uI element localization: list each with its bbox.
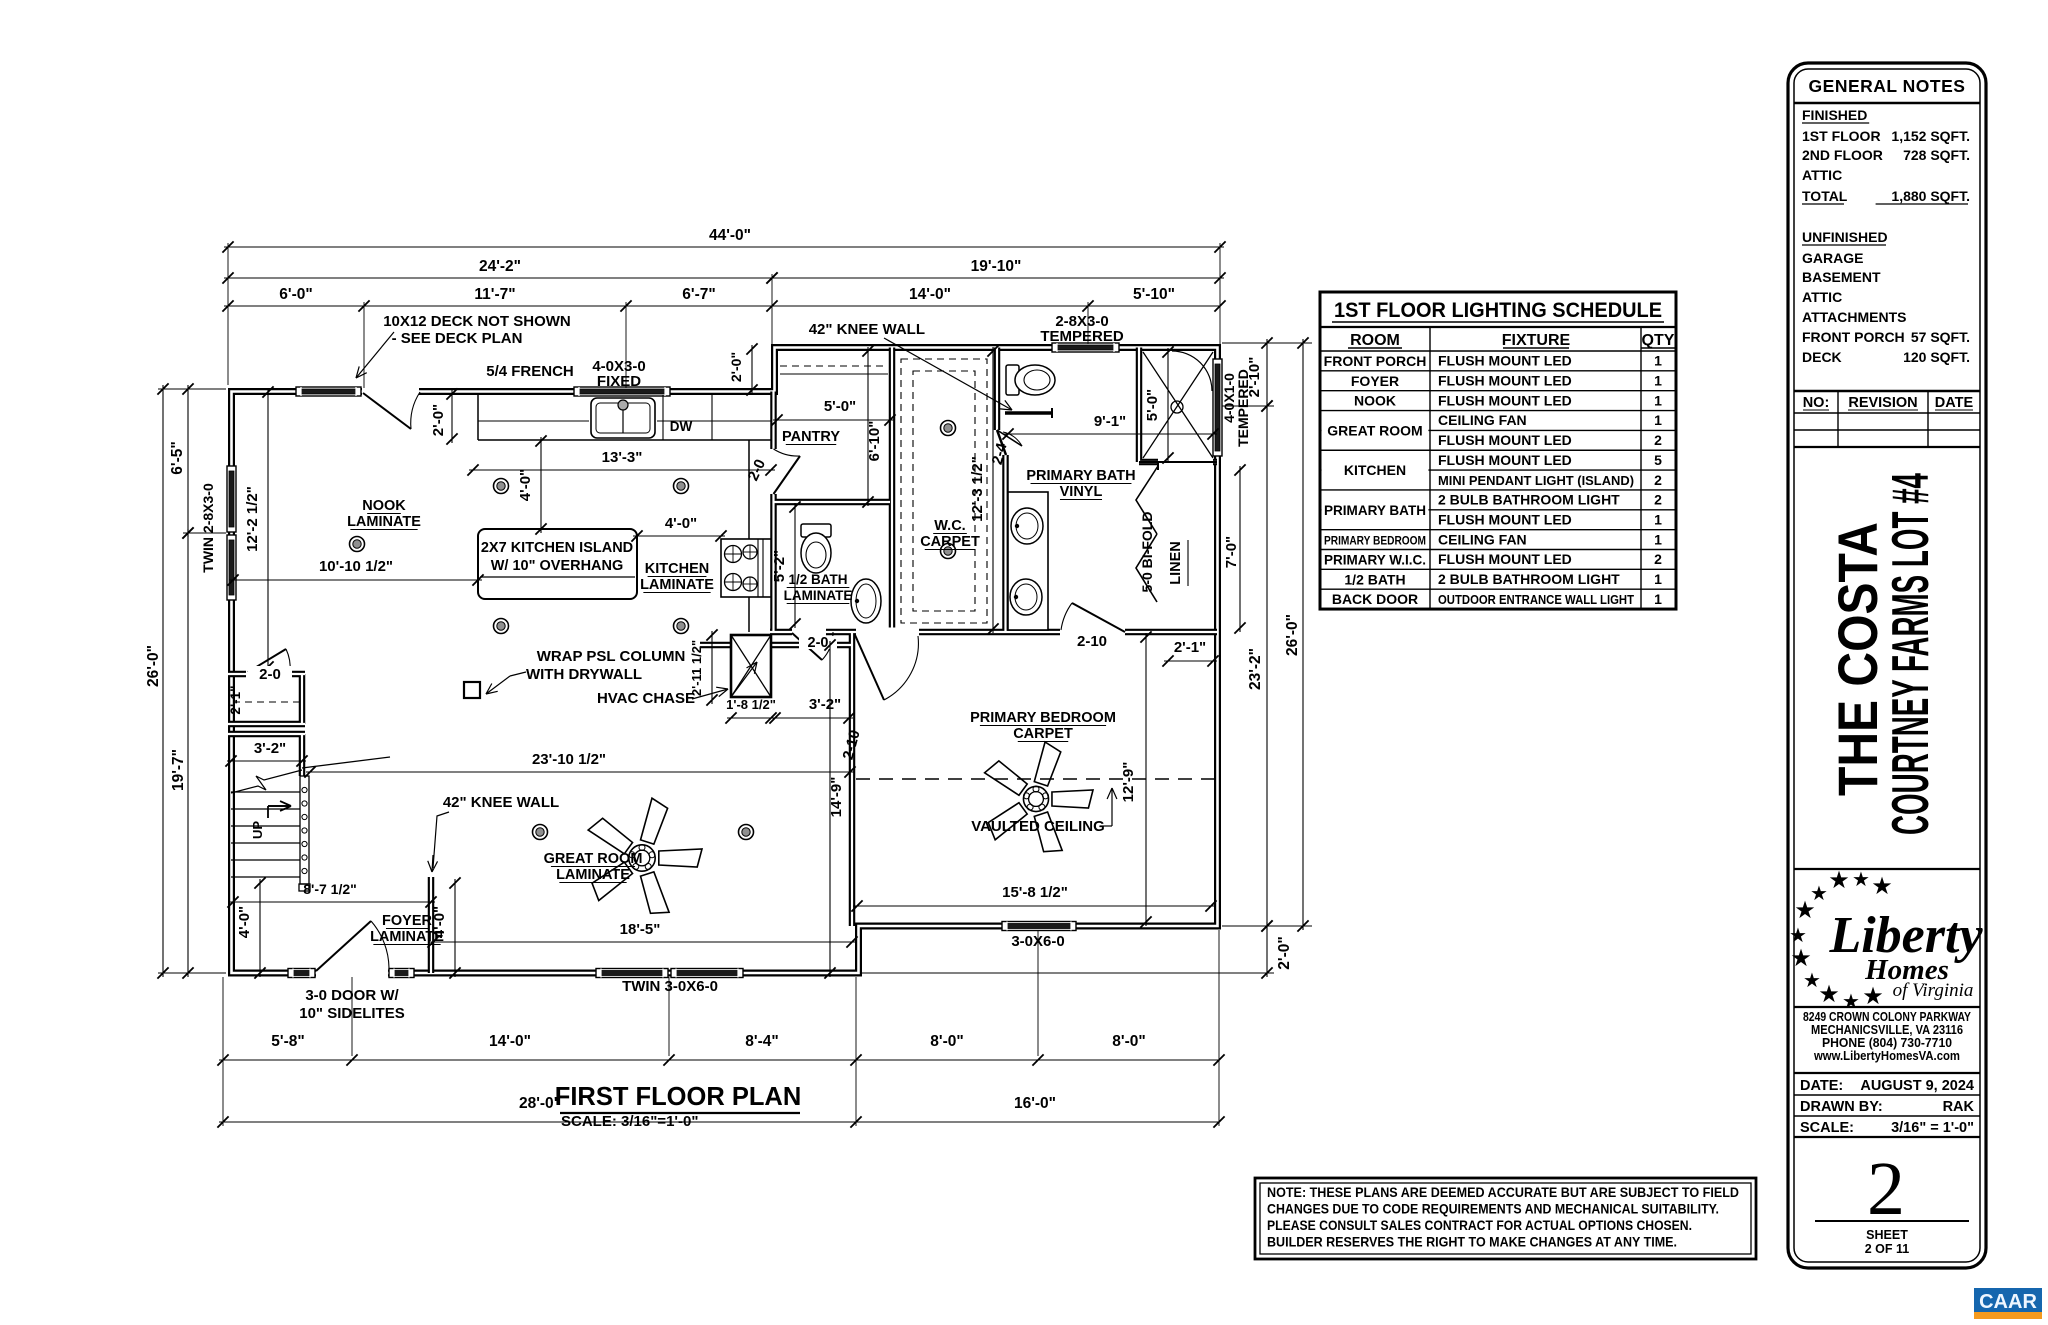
svg-text:PANTRY: PANTRY [782,429,840,445]
svg-text:www.LibertyHomesVA.com: www.LibertyHomesVA.com [1813,1049,1960,1063]
svg-text:of Virginia: of Virginia [1893,980,1974,1001]
svg-text:★: ★ [1818,981,1840,1008]
svg-text:14'-9": 14'-9" [828,777,845,818]
svg-text:5'-10": 5'-10" [1133,286,1175,303]
svg-text:2 OF 11: 2 OF 11 [1865,1242,1910,1256]
svg-text:GARAGE: GARAGE [1802,250,1863,266]
svg-text:VAULTED CEILING: VAULTED CEILING [971,818,1105,835]
svg-text:5: 5 [1654,452,1662,468]
svg-text:2'-0": 2'-0" [728,352,744,382]
svg-text:19'-10": 19'-10" [971,258,1022,275]
svg-text:18'-5": 18'-5" [620,921,661,938]
svg-text:SCALE: 3/16"=1'-0": SCALE: 3/16"=1'-0" [561,1113,698,1130]
svg-text:FIRST FLOOR PLAN: FIRST FLOOR PLAN [555,1083,801,1111]
svg-text:MINI PENDANT LIGHT (ISLAND): MINI PENDANT LIGHT (ISLAND) [1438,473,1634,488]
svg-text:1/2 BATH: 1/2 BATH [788,572,847,587]
svg-text:14'-0": 14'-0" [489,1033,531,1050]
svg-text:1: 1 [1654,591,1662,607]
svg-text:23'-2": 23'-2" [1247,648,1264,690]
svg-text:1: 1 [1654,571,1662,587]
svg-text:2'-1": 2'-1" [228,685,243,714]
svg-text:26'-0": 26'-0" [1284,614,1301,656]
svg-text:FRONT PORCH: FRONT PORCH [1324,353,1427,369]
svg-text:57 SQFT.: 57 SQFT. [1911,329,1970,345]
svg-text:6'-5": 6'-5" [169,441,186,474]
svg-text:2'-11 1/2": 2'-11 1/2" [689,640,704,696]
svg-text:NOOK: NOOK [1354,393,1396,409]
svg-text:5'-2": 5'-2" [771,550,788,582]
svg-text:8'-0": 8'-0" [930,1033,963,1050]
svg-text:8'-4": 8'-4" [745,1033,778,1050]
svg-text:1ST FLOOR LIGHTING SCHEDULE: 1ST FLOOR LIGHTING SCHEDULE [1334,299,1662,322]
svg-text:12'-2 1/2": 12'-2 1/2" [244,486,261,552]
svg-text:5'-0": 5'-0" [1144,389,1161,421]
svg-text:ATTIC: ATTIC [1802,167,1842,183]
svg-text:10" SIDELITES: 10" SIDELITES [299,1005,404,1022]
svg-text:DATE: DATE [1935,395,1974,411]
svg-text:NOTE: THESE PLANS ARE DEEMED A: NOTE: THESE PLANS ARE DEEMED ACCURATE BU… [1267,1184,1739,1200]
svg-text:PHONE (804) 730-7710: PHONE (804) 730-7710 [1822,1036,1952,1050]
svg-text:4'-0": 4'-0" [236,906,253,938]
svg-text:1/2 BATH: 1/2 BATH [1344,571,1405,587]
svg-text:FOYER: FOYER [1351,373,1399,389]
svg-text:SHEET: SHEET [1866,1228,1908,1242]
svg-text:FLUSH MOUNT LED: FLUSH MOUNT LED [1438,353,1572,369]
svg-text:★: ★ [1790,945,1812,972]
svg-text:FIXTURE: FIXTURE [1502,332,1571,349]
svg-text:AUGUST 9, 2024: AUGUST 9, 2024 [1860,1078,1974,1094]
svg-text:2: 2 [1654,472,1662,488]
svg-text:3-0 DOOR W/: 3-0 DOOR W/ [305,987,399,1004]
svg-text:2-0: 2-0 [259,666,281,683]
svg-text:7'-0": 7'-0" [1223,536,1240,568]
svg-text:★: ★ [1789,925,1807,947]
svg-text:NOOK: NOOK [362,498,406,514]
svg-text:FOYER: FOYER [382,913,432,929]
svg-text:6'-10": 6'-10" [866,421,883,462]
svg-text:PRIMARY W.I.C.: PRIMARY W.I.C. [1324,551,1426,567]
svg-text:UP: UP [250,821,265,839]
svg-text:2 BULB BATHROOM LIGHT: 2 BULB BATHROOM LIGHT [1438,492,1620,508]
svg-text:KITCHEN: KITCHEN [1344,462,1406,478]
svg-text:3'-2": 3'-2" [254,740,286,757]
svg-text:BACK DOOR: BACK DOOR [1332,591,1418,607]
svg-text:1,152 SQFT.: 1,152 SQFT. [1891,128,1970,144]
svg-text:LAMINATE: LAMINATE [640,577,714,593]
svg-text:2: 2 [1867,1147,1905,1231]
svg-text:DRAWN BY:: DRAWN BY: [1800,1099,1883,1115]
svg-text:2 BULB BATHROOM LIGHT: 2 BULB BATHROOM LIGHT [1438,571,1620,587]
svg-text:OUTDOOR ENTRANCE WALL LIGHT: OUTDOOR ENTRANCE WALL LIGHT [1438,592,1634,607]
svg-text:4'-0": 4'-0" [517,469,534,501]
svg-text:6'-7": 6'-7" [682,286,715,303]
svg-text:★: ★ [1828,867,1850,894]
svg-text:4'-0": 4'-0" [665,515,697,532]
svg-text:42" KNEE WALL: 42" KNEE WALL [809,321,925,338]
svg-text:PRIMARY BEDROOM: PRIMARY BEDROOM [1324,534,1426,548]
svg-text:120 SQFT.: 120 SQFT. [1903,349,1970,365]
svg-text:2'-1": 2'-1" [1174,639,1206,656]
svg-text:ATTIC: ATTIC [1802,289,1842,305]
svg-text:1ST FLOOR: 1ST FLOOR [1802,128,1881,144]
svg-text:VINYL: VINYL [1060,484,1103,500]
svg-text:FLUSH MOUNT LED: FLUSH MOUNT LED [1438,452,1572,468]
svg-text:ROOM: ROOM [1350,332,1400,349]
svg-text:8249 CROWN COLONY PARKWAY: 8249 CROWN COLONY PARKWAY [1803,1010,1972,1024]
svg-text:2: 2 [1654,492,1662,508]
svg-text:★: ★ [1794,897,1816,924]
svg-text:1'-8 1/2": 1'-8 1/2" [726,697,776,712]
svg-text:5'-0": 5'-0" [824,398,856,415]
svg-text:2X7 KITCHEN ISLAND: 2X7 KITCHEN ISLAND [481,540,633,556]
svg-text:BUILDER RESERVES THE RIGHT TO: BUILDER RESERVES THE RIGHT TO MAKE CHANG… [1267,1234,1677,1250]
svg-text:LAMINATE: LAMINATE [784,588,853,603]
svg-text:2: 2 [1654,551,1662,567]
svg-text:19'-7": 19'-7" [170,749,187,791]
svg-text:FLUSH MOUNT LED: FLUSH MOUNT LED [1438,392,1572,408]
svg-text:9'-1": 9'-1" [1094,413,1126,430]
svg-text:GREAT ROOM: GREAT ROOM [1327,422,1422,438]
svg-text:3-0X6-0: 3-0X6-0 [1011,933,1064,950]
svg-text:- SEE DECK PLAN: - SEE DECK PLAN [392,330,523,347]
svg-text:TEMPERED: TEMPERED [1040,328,1124,345]
svg-text:WRAP PSL COLUMN: WRAP PSL COLUMN [537,648,686,665]
svg-text:MECHANICSVILLE, VA 23116: MECHANICSVILLE, VA 23116 [1811,1023,1963,1037]
svg-text:14'-0": 14'-0" [909,286,951,303]
svg-text:5-0 BI-FOLD: 5-0 BI-FOLD [1139,512,1155,593]
svg-text:DW: DW [670,419,693,434]
svg-text:12'-3 1/2": 12'-3 1/2" [969,456,986,522]
svg-text:2: 2 [1654,432,1662,448]
svg-text:2ND FLOOR: 2ND FLOOR [1802,147,1883,163]
svg-text:SCALE:: SCALE: [1800,1120,1854,1136]
svg-text:W/ 10" OVERHANG: W/ 10" OVERHANG [491,558,624,574]
svg-text:REVISION: REVISION [1848,395,1917,411]
svg-text:ATTACHMENTS: ATTACHMENTS [1802,309,1906,325]
svg-text:CAAR: CAAR [1979,1291,2037,1313]
svg-text:3/16" = 1'-0": 3/16" = 1'-0" [1891,1120,1974,1136]
svg-text:HVAC CHASE: HVAC CHASE [597,690,695,707]
svg-text:RAK: RAK [1943,1099,1975,1115]
svg-text:10'-10 1/2": 10'-10 1/2" [319,558,393,575]
svg-text:16'-0": 16'-0" [1014,1095,1056,1112]
svg-text:GENERAL NOTES: GENERAL NOTES [1809,76,1966,96]
svg-text:15'-8 1/2": 15'-8 1/2" [1002,884,1068,901]
svg-text:LAMINATE: LAMINATE [347,514,421,530]
svg-text:PLEASE CONSULT SALES CONTRACT: PLEASE CONSULT SALES CONTRACT FOR ACTUAL… [1267,1217,1692,1233]
svg-text:24'-2": 24'-2" [479,258,521,275]
svg-text:6'-0": 6'-0" [279,286,312,303]
svg-text:PRIMARY BATH: PRIMARY BATH [1026,468,1135,484]
svg-text:2-10: 2-10 [840,728,864,761]
svg-text:PRIMARY BATH: PRIMARY BATH [1324,502,1426,518]
svg-text:FLUSH MOUNT LED: FLUSH MOUNT LED [1438,432,1572,448]
svg-text:COURTNEY FARMS LOT #4: COURTNEY FARMS LOT #4 [1882,473,1940,835]
svg-text:UNFINISHED: UNFINISHED [1802,229,1888,245]
svg-text:LAMINATE: LAMINATE [556,867,630,883]
svg-text:PRIMARY BEDROOM: PRIMARY BEDROOM [970,710,1116,726]
svg-text:GREAT ROOM: GREAT ROOM [544,851,643,867]
svg-text:8'-7 1/2": 8'-7 1/2" [303,881,357,897]
svg-text:DATE:: DATE: [1800,1078,1843,1094]
svg-text:1: 1 [1654,392,1662,408]
svg-text:1: 1 [1654,373,1662,389]
svg-text:TEMPERED: TEMPERED [1235,369,1251,447]
svg-text:12'-9": 12'-9" [1120,762,1137,803]
svg-text:42" KNEE WALL: 42" KNEE WALL [443,794,559,811]
svg-text:1: 1 [1654,412,1662,428]
svg-text:TOTAL: TOTAL [1802,188,1848,204]
svg-text:FRONT PORCH: FRONT PORCH [1802,329,1905,345]
svg-text:2'-0": 2'-0" [1276,936,1293,969]
svg-text:44'-0": 44'-0" [709,227,751,244]
svg-text:DECK: DECK [1802,349,1842,365]
svg-text:13'-3": 13'-3" [602,449,643,466]
svg-text:1: 1 [1654,511,1662,527]
svg-text:CARPET: CARPET [1013,726,1073,742]
svg-text:26'-0": 26'-0" [145,645,162,687]
svg-text:THE COSTA: THE COSTA [1826,522,1889,796]
svg-text:FLUSH MOUNT LED: FLUSH MOUNT LED [1438,551,1572,567]
svg-text:1: 1 [1654,531,1662,547]
svg-text:FINISHED: FINISHED [1802,107,1867,123]
svg-text:WITH DRYWALL: WITH DRYWALL [526,666,642,683]
svg-text:KITCHEN: KITCHEN [645,561,709,577]
svg-text:FIXED: FIXED [597,373,641,390]
svg-text:3'-2": 3'-2" [809,696,841,713]
svg-text:728 SQFT.: 728 SQFT. [1903,147,1970,163]
svg-text:23'-10 1/2": 23'-10 1/2" [532,751,606,768]
svg-text:11'-7": 11'-7" [474,286,515,303]
svg-text:2'-0": 2'-0" [430,404,447,436]
svg-text:10X12 DECK NOT SHOWN: 10X12 DECK NOT SHOWN [383,313,571,330]
svg-text:LAMINATE: LAMINATE [370,929,444,945]
svg-text:1,880 SQFT.: 1,880 SQFT. [1891,188,1970,204]
svg-text:TWIN 2-8X3-0: TWIN 2-8X3-0 [200,483,216,573]
svg-text:CHANGES DUE TO CODE REQUIREMEN: CHANGES DUE TO CODE REQUIREMENTS AND MEC… [1267,1201,1719,1217]
svg-text:FLUSH MOUNT LED: FLUSH MOUNT LED [1438,373,1572,389]
svg-text:TWIN 3-0X6-0: TWIN 3-0X6-0 [622,978,718,995]
svg-text:BASEMENT: BASEMENT [1802,269,1881,285]
svg-text:★: ★ [1871,873,1893,900]
svg-text:LINEN: LINEN [1168,541,1184,585]
svg-text:QTY: QTY [1642,332,1675,349]
svg-text:★: ★ [1852,869,1870,891]
svg-text:FLUSH MOUNT LED: FLUSH MOUNT LED [1438,511,1572,527]
svg-text:5'-8": 5'-8" [271,1033,304,1050]
svg-text:1: 1 [1654,353,1662,369]
svg-text:NO:: NO: [1803,395,1830,411]
svg-text:W.C.: W.C. [934,518,965,534]
svg-text:CEILING FAN: CEILING FAN [1438,412,1527,428]
svg-text:2-10: 2-10 [1077,633,1107,650]
svg-text:5/4 FRENCH: 5/4 FRENCH [486,363,574,380]
svg-text:CEILING FAN: CEILING FAN [1438,531,1527,547]
svg-text:CARPET: CARPET [920,534,980,550]
svg-text:8'-0": 8'-0" [1112,1033,1145,1050]
